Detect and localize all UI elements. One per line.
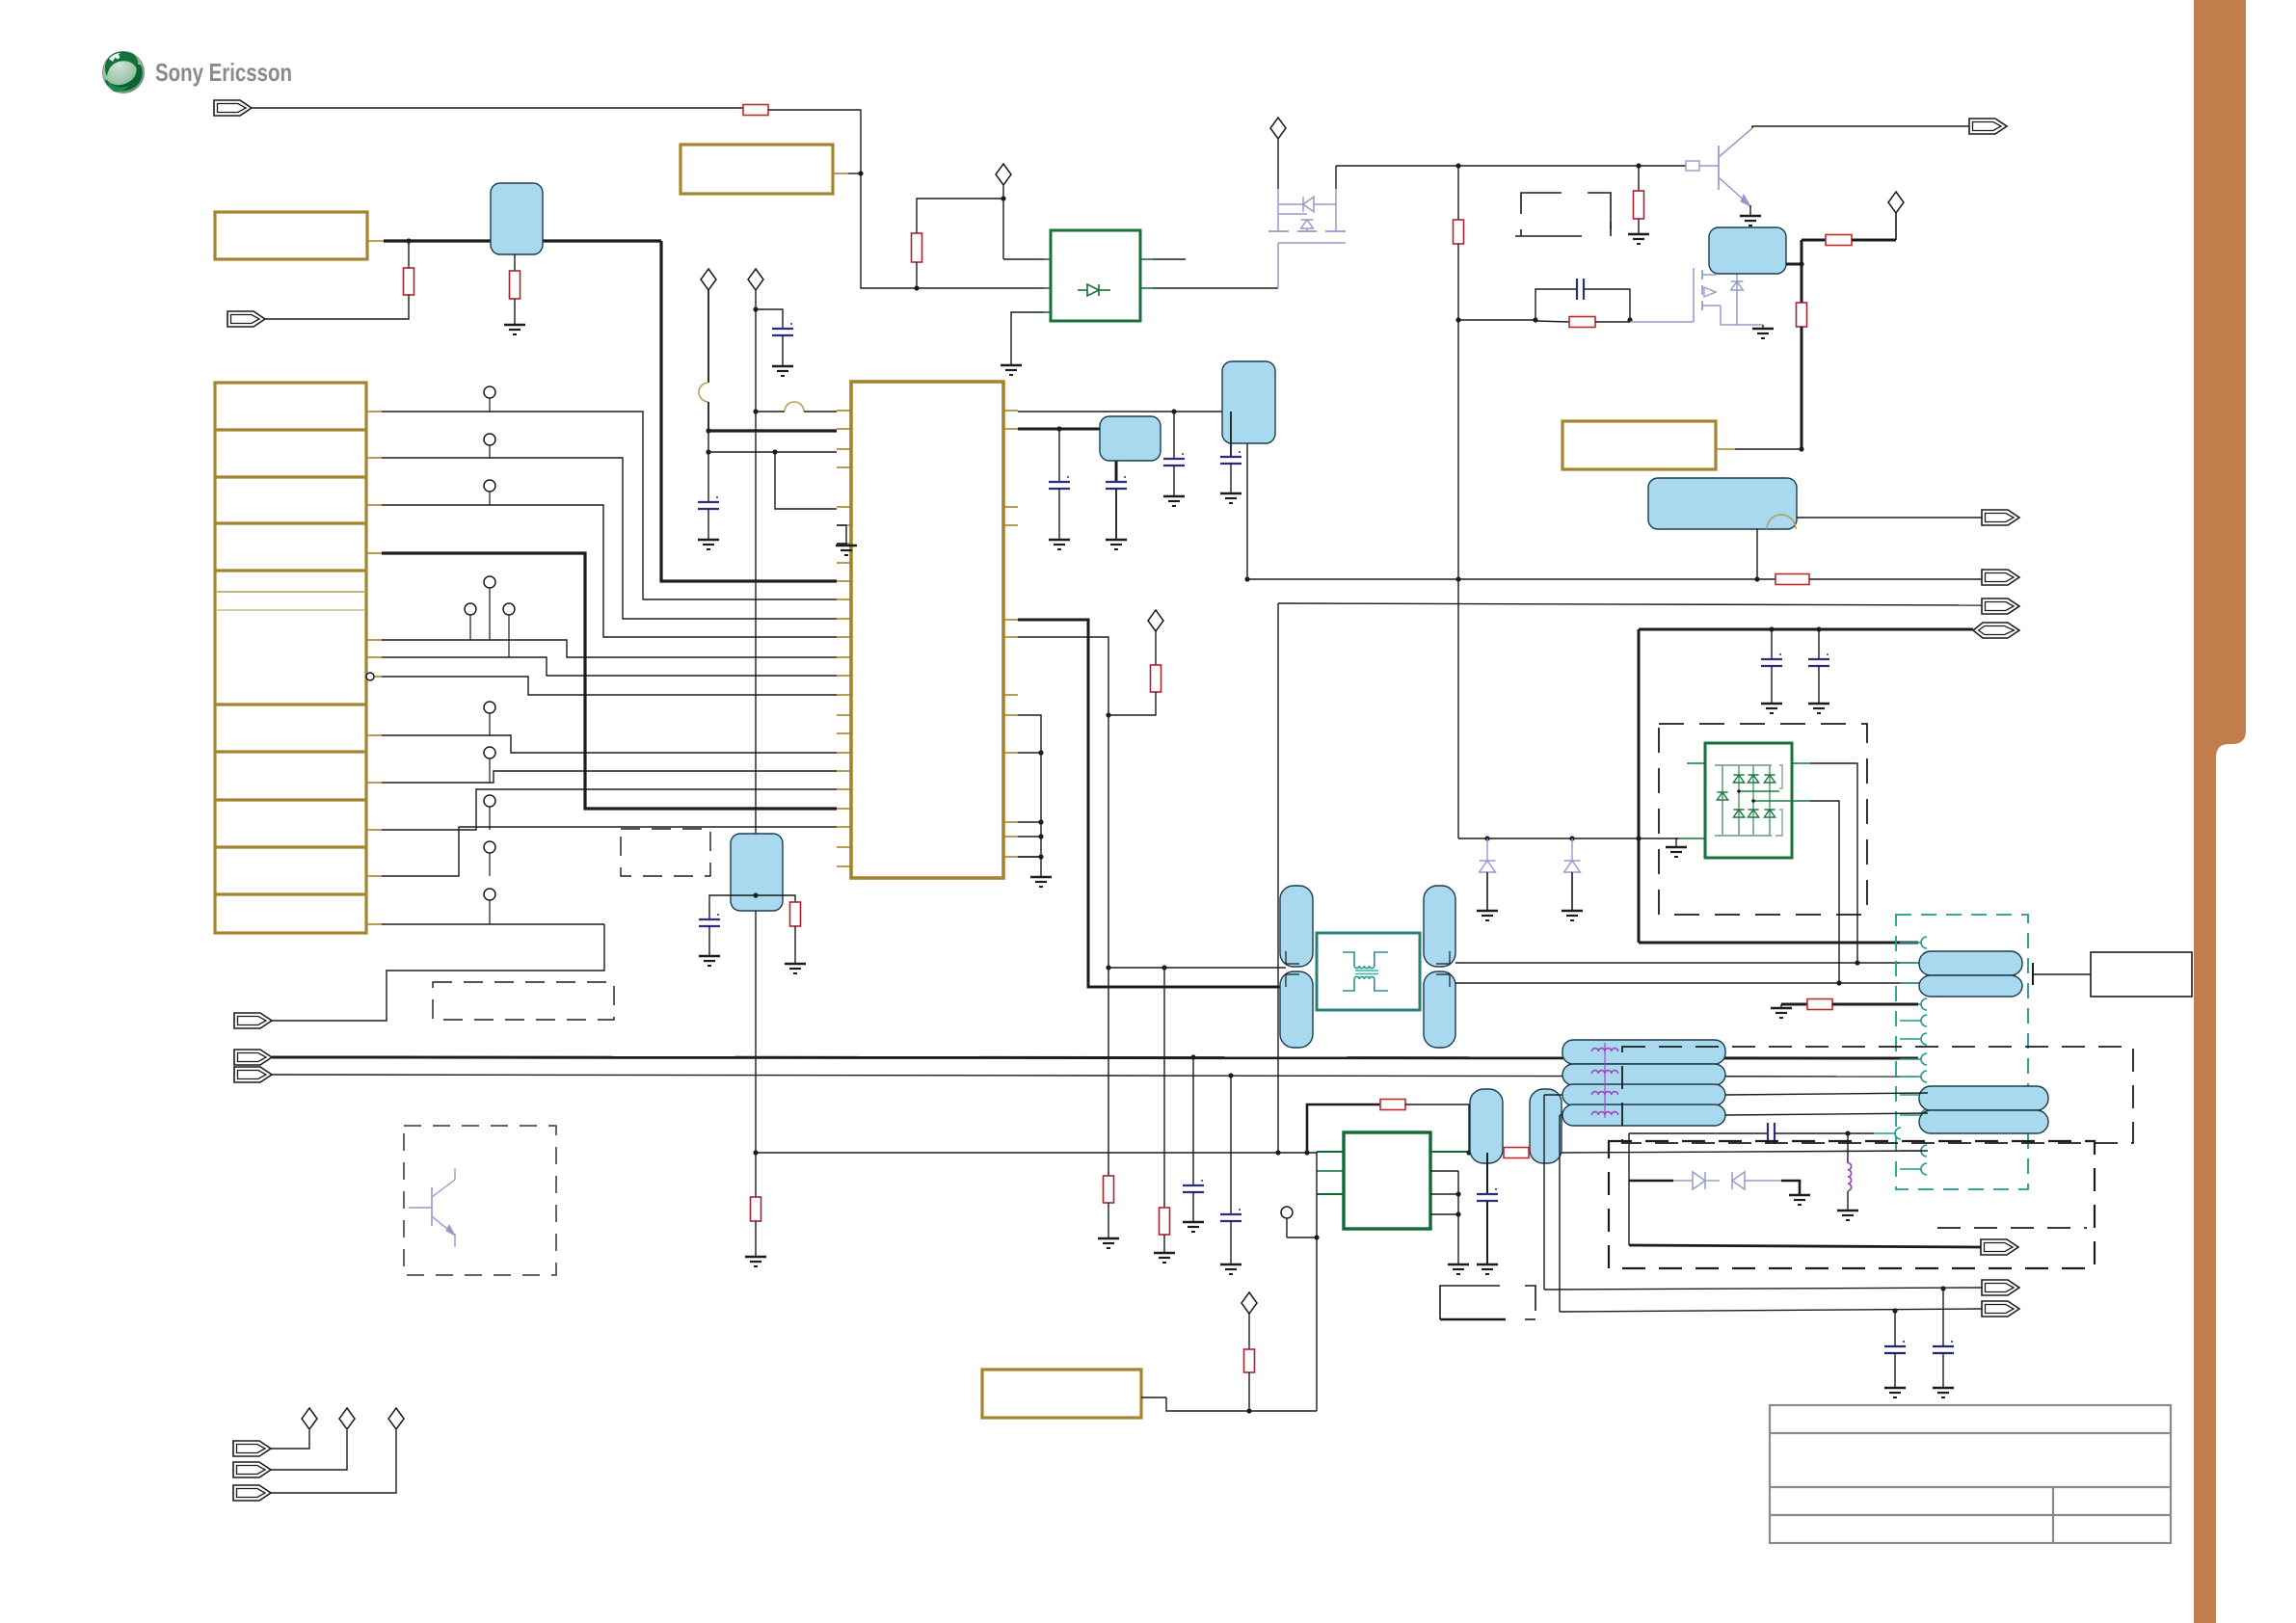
capacitor C14 bbox=[1942, 1289, 1944, 1346]
antenna pin y1020 bbox=[1921, 977, 1927, 989]
wire R3 to node bbox=[768, 110, 861, 173]
U1 left pin y879 bbox=[837, 846, 851, 848]
wire R15 loop back to rail bbox=[1405, 1104, 1469, 1153]
wire U1 pin643 thick to balun bbox=[1018, 620, 1286, 987]
junction bbox=[1855, 960, 1859, 965]
title block table bbox=[1770, 1405, 2171, 1543]
diode limiter branch bbox=[1629, 1180, 1673, 1183]
connector J1 thin divider bbox=[217, 609, 364, 611]
resistor R8 bbox=[1826, 235, 1852, 246]
power diamond VD8 bbox=[302, 1408, 317, 1429]
J1 pin y664 bbox=[366, 639, 382, 641]
U1 right pin y721 bbox=[1003, 694, 1018, 696]
wire y626 to A12 bbox=[1278, 603, 1982, 605]
connector J1 row divider bbox=[215, 703, 366, 705]
svg-text:Sony Ericsson: Sony Ericsson bbox=[155, 58, 292, 87]
orange sidebar bbox=[2194, 0, 2246, 1623]
ground bbox=[1220, 492, 1241, 494]
wire to U2 left pin bbox=[917, 287, 1044, 289]
wire U4 right pins to gnd bbox=[1457, 1171, 1459, 1264]
port arrow A10 bbox=[1982, 510, 2019, 525]
dashed box DB4 bbox=[621, 829, 710, 876]
transformer T1 teal box bbox=[1317, 933, 1420, 1010]
wire rail to base resistor bbox=[1639, 165, 1686, 167]
junction bbox=[753, 1150, 758, 1155]
capacitor C11 bbox=[1228, 1073, 1233, 1078]
junction bbox=[858, 171, 863, 175]
transistor Q4 npn bbox=[431, 1187, 433, 1226]
Q3 body diode bbox=[1736, 274, 1738, 325]
junction bbox=[1038, 819, 1043, 824]
U1 right pin y853 bbox=[1003, 821, 1018, 823]
wire J1 y524 to U1 y661 bbox=[382, 505, 837, 637]
thick feed x1356 bbox=[1307, 1104, 1380, 1153]
junction bbox=[1569, 836, 1574, 840]
U3 inner bus bbox=[1739, 790, 1779, 792]
inductor pills link bbox=[1604, 1043, 1606, 1118]
resistor R11v bbox=[1155, 631, 1157, 665]
U1 left pin y466 bbox=[837, 448, 851, 450]
junction bbox=[1799, 446, 1803, 451]
balun pill B7 bbox=[1280, 886, 1313, 967]
resistor R13 bbox=[1108, 968, 1109, 1176]
wire J1 y812 to U1 y800 bbox=[382, 771, 837, 783]
port arrow A13 double bbox=[1973, 623, 2019, 638]
junction bbox=[1799, 261, 1803, 266]
antenna pill B18 bbox=[1919, 975, 2022, 997]
test point bbox=[489, 398, 491, 412]
wire U1 pin426R bbox=[1018, 411, 1231, 412]
wire pins545-564 to ground bbox=[837, 525, 846, 544]
wire VD2 stem with hop bbox=[707, 290, 709, 383]
wire to U1 pin445 thick bbox=[708, 429, 837, 432]
port arrow A8 bbox=[233, 1485, 271, 1501]
port arrow A7 bbox=[233, 1462, 271, 1477]
J1 pin y682 bbox=[366, 656, 382, 658]
thick antenna wire y1097 bbox=[272, 1057, 1918, 1058]
J1 pin y524 bbox=[366, 504, 382, 506]
antenna pin y1099 bbox=[1921, 1053, 1927, 1065]
wire J1 y909 to U1 y858 bbox=[382, 827, 837, 876]
wire A7 to VD9 bbox=[271, 1430, 347, 1470]
wire VD1 to U2 top pin bbox=[1003, 258, 1044, 260]
junction bbox=[1038, 750, 1043, 755]
inductor pill L3 bbox=[1562, 1064, 1725, 1085]
ground bbox=[1933, 1387, 1954, 1389]
antenna pin y1213 bbox=[1921, 1163, 1927, 1175]
thick wire to antenna pin y978 bbox=[1639, 942, 1918, 945]
junction bbox=[706, 449, 710, 454]
port arrow A6 bbox=[233, 1441, 271, 1456]
junction bbox=[1816, 626, 1821, 631]
U1 right pin y526 bbox=[1003, 506, 1018, 508]
junction bbox=[1275, 1150, 1280, 1155]
U2 pin stubs bbox=[1044, 258, 1051, 260]
connector J1 row divider bbox=[215, 569, 366, 572]
junction bbox=[753, 306, 758, 311]
capacitor C12 bbox=[1486, 1153, 1488, 1194]
power diamond VD7 bbox=[1241, 1292, 1257, 1314]
antenna pin y978 bbox=[1921, 937, 1927, 948]
U1 left pin y622 bbox=[837, 599, 851, 600]
balun pill B8 bbox=[1280, 971, 1313, 1048]
ground bbox=[1762, 325, 1764, 329]
U1 left pin y781 bbox=[837, 752, 851, 754]
wire main rail y172 bbox=[1336, 165, 1639, 167]
U1 left pin y545 bbox=[837, 524, 851, 526]
port arrow A16 bbox=[1982, 1301, 2019, 1317]
component Z1 blue bbox=[491, 183, 543, 254]
junction bbox=[1636, 836, 1641, 840]
junction bbox=[1845, 1131, 1850, 1135]
junction bbox=[1455, 163, 1460, 168]
resistor R6 bbox=[1454, 220, 1464, 244]
J1 pin y702 bbox=[366, 676, 382, 678]
ground bbox=[772, 365, 793, 367]
port arrow A9 bbox=[1969, 119, 2007, 134]
junction bbox=[1754, 576, 1759, 581]
ground bbox=[836, 545, 857, 546]
thick vertical x1700 bbox=[1638, 629, 1641, 943]
ground bbox=[1001, 364, 1022, 366]
junction bbox=[1892, 1308, 1897, 1313]
power diamond VD10 bbox=[388, 1408, 404, 1429]
U1 left pin y721 bbox=[837, 694, 851, 696]
junction bbox=[1455, 1211, 1460, 1216]
port arrow A2 bbox=[227, 311, 265, 327]
bracket shield BT1 bbox=[1521, 193, 1562, 214]
wire y601 bus bbox=[1247, 578, 1775, 580]
junction bbox=[1038, 834, 1043, 838]
ground bbox=[1154, 1252, 1175, 1254]
wire VBATT vertical to U1 pin603 bbox=[661, 241, 837, 581]
wire pill row3 right bbox=[1725, 1093, 1928, 1095]
power diamond VD5 bbox=[1895, 212, 1897, 240]
component Z6 blue bbox=[731, 834, 783, 911]
antenna box W1 bbox=[2091, 952, 2192, 997]
U1 left pin y701 bbox=[837, 675, 851, 677]
J1 pin y574 bbox=[366, 552, 382, 554]
wire A8 to VD10 bbox=[271, 1430, 396, 1493]
wire Z3 right to A10 bbox=[1797, 517, 1982, 519]
junction bbox=[1627, 317, 1632, 322]
antenna pin y1194 bbox=[1921, 1145, 1927, 1157]
test point bbox=[489, 807, 491, 830]
wire U3 right pin831 drop bbox=[1810, 801, 1839, 983]
dashed box DB3 bbox=[433, 982, 614, 1020]
resistor Rb light bbox=[1686, 161, 1699, 171]
wire pill row4 right bbox=[1725, 1113, 1928, 1115]
wire J1 y861 to U1 y819 bbox=[382, 789, 837, 830]
junction bbox=[1455, 1191, 1460, 1196]
wire to C2 bbox=[756, 309, 783, 329]
ground bbox=[1837, 1210, 1858, 1211]
component Z3 blue with notch bbox=[1648, 478, 1797, 529]
junction bbox=[1466, 1150, 1471, 1155]
ground bbox=[1098, 1237, 1119, 1239]
vertical x1208 bbox=[1163, 968, 1165, 1208]
resistor R16 bbox=[1504, 1148, 1529, 1158]
ground bbox=[1049, 539, 1070, 541]
wire Q2 collector bbox=[1752, 126, 1969, 128]
junction bbox=[1769, 626, 1774, 631]
block P1 top-left bbox=[215, 212, 367, 259]
J1 pin y763 bbox=[366, 734, 382, 736]
U1 left pin y642 bbox=[837, 618, 851, 620]
wire R5h to Q3 gate bbox=[1595, 321, 1630, 323]
J1 pin y475 bbox=[366, 457, 382, 459]
wire VD3 stem long bbox=[755, 290, 757, 1153]
ground bbox=[698, 539, 719, 541]
junction bbox=[1244, 576, 1249, 581]
wire B9 to antenna pills bbox=[1455, 962, 1928, 964]
wire A6 to VD8 bbox=[271, 1430, 309, 1449]
power diamond VD9 bbox=[339, 1408, 355, 1429]
U3 right brackets bbox=[1779, 765, 1782, 788]
resistor R14 bbox=[1160, 1208, 1170, 1235]
pa rail y1196 bbox=[756, 1152, 1317, 1154]
ground bbox=[1477, 910, 1498, 912]
block P2 top-middle bbox=[681, 145, 833, 194]
ground bbox=[1448, 1264, 1469, 1265]
U1 right pin y661 bbox=[1003, 636, 1018, 638]
bracket shield BT2 bbox=[1440, 1286, 1500, 1319]
U1 left pin y839 bbox=[837, 808, 851, 810]
junction bbox=[1314, 1235, 1319, 1239]
wire Q1 gate down-left bbox=[1277, 243, 1279, 288]
capacitor C13 bbox=[1894, 1311, 1896, 1346]
connector J1 row divider bbox=[215, 892, 366, 895]
power diamond VD2 bbox=[701, 269, 716, 290]
junction bbox=[753, 892, 758, 897]
diode D1 bbox=[1486, 838, 1488, 861]
wire J1 y427 to U1 y622 bbox=[382, 412, 837, 599]
J1 pin y861 bbox=[366, 829, 382, 831]
resistor R7 bbox=[1638, 166, 1640, 191]
U1 right pin y781 bbox=[1003, 752, 1018, 754]
junction bbox=[1455, 576, 1460, 581]
wire U2 out to Q1 gate bbox=[1153, 287, 1278, 289]
U4 pins bbox=[1317, 1151, 1344, 1153]
connector J1 thin divider bbox=[217, 591, 364, 593]
antenna pin y999 bbox=[1921, 957, 1927, 969]
capacitor C9 bbox=[1818, 629, 1820, 659]
U1 right pin y868 bbox=[1003, 836, 1018, 838]
antenna pin y1136 bbox=[1921, 1089, 1927, 1101]
ground bbox=[504, 324, 525, 326]
J1 pin y812 bbox=[366, 782, 382, 784]
resistor R9 bbox=[1797, 303, 1807, 327]
J1 pin circle bbox=[366, 673, 374, 680]
junction bbox=[1161, 965, 1166, 970]
inductor pill L4 bbox=[1562, 1084, 1725, 1105]
U1 left pin y564 bbox=[837, 543, 851, 545]
transistor Q1 p-mosfet bbox=[1277, 189, 1279, 231]
test point bbox=[1281, 1207, 1293, 1218]
junction bbox=[1484, 836, 1489, 840]
wire B10 to antenna pills bbox=[1455, 982, 1928, 984]
connector J1 row divider bbox=[215, 798, 366, 801]
dashed box DB-U bbox=[1622, 1047, 2133, 1143]
port arrow A15 bbox=[1982, 1280, 2019, 1295]
test point bbox=[469, 615, 471, 640]
U1 left pin y819 bbox=[837, 788, 851, 790]
wire drop to pin526 bbox=[775, 452, 837, 509]
junction bbox=[1001, 196, 1005, 200]
wire VD4 stem bbox=[1277, 139, 1279, 189]
U1 left pin y800 bbox=[837, 770, 851, 772]
U1 left pin y761 bbox=[837, 732, 851, 734]
port arrow A11 bbox=[1982, 570, 2019, 585]
U3 pins bbox=[1687, 762, 1705, 764]
ground bbox=[699, 955, 720, 957]
inductor pill L5 bbox=[1562, 1104, 1725, 1126]
wire y1176 with series cap bbox=[1629, 1132, 1768, 1134]
U1 left pin y426 bbox=[837, 410, 851, 412]
wire VD1 stem bbox=[1002, 185, 1004, 259]
junction bbox=[1304, 1150, 1309, 1155]
ground bbox=[1666, 846, 1687, 848]
J1 pin y909 bbox=[366, 875, 382, 877]
T1 pin notches bbox=[1286, 951, 1299, 964]
ground bbox=[1884, 1387, 1906, 1389]
power diamond VD1 bbox=[996, 164, 1011, 185]
resistor R1 bbox=[408, 241, 410, 268]
capacitor C5 bbox=[1173, 412, 1175, 459]
resistor R11b bbox=[756, 895, 795, 902]
ground bbox=[1477, 1264, 1498, 1265]
capacitor C6 bbox=[1230, 412, 1232, 457]
dashed box DB5 bbox=[404, 1126, 556, 1275]
ground bbox=[1761, 703, 1782, 705]
resistor R3 bbox=[743, 105, 768, 116]
antenna pill B17 bbox=[1919, 951, 2022, 975]
U1 left pin y661 bbox=[837, 636, 851, 638]
test point bbox=[489, 900, 491, 924]
antenna feed bar bbox=[2032, 963, 2034, 985]
junction bbox=[1056, 426, 1061, 431]
antenna pin y1117 bbox=[1921, 1071, 1927, 1082]
antenna pill B19 bbox=[1919, 1086, 2048, 1110]
antenna pin y1157 bbox=[1921, 1109, 1927, 1121]
U1 left pin y682 bbox=[837, 656, 851, 658]
component Z5 blue bbox=[1100, 416, 1161, 461]
ground bbox=[785, 963, 806, 965]
connector J1 row divider bbox=[215, 750, 366, 753]
connector J1 row divider bbox=[215, 428, 366, 431]
ground bbox=[1163, 495, 1185, 497]
wire A16 net bbox=[1560, 1309, 1982, 1312]
regulator U2 green box bbox=[1051, 230, 1140, 321]
wire U3 right pin792 drop bbox=[1810, 763, 1857, 963]
U1 left pin y445 bbox=[837, 428, 851, 430]
thick wire y1292 to A14 bbox=[1629, 1245, 1981, 1247]
U1 right pin y426 bbox=[1003, 410, 1018, 412]
ground bbox=[1808, 703, 1829, 705]
capacitor C10 bbox=[1192, 1057, 1194, 1185]
wire J1 y959 to header bbox=[382, 923, 604, 925]
wire Q2 emitter to gnd bbox=[1749, 205, 1751, 216]
U1 left pin y584 bbox=[837, 562, 851, 564]
capacitor C16 bbox=[699, 918, 720, 920]
antenna pin y1078 bbox=[1921, 1033, 1927, 1045]
junction bbox=[1455, 317, 1460, 322]
U1 left pin y603 bbox=[837, 580, 851, 582]
wire VD1 to R4 bbox=[917, 199, 1003, 233]
vertical x1326 RF bbox=[1277, 603, 1279, 1153]
dashed segment bbox=[1937, 1227, 2087, 1229]
junction bbox=[706, 428, 710, 433]
transistor Q2 npn bbox=[1718, 146, 1720, 190]
wire U1 pin445R thick bbox=[1018, 429, 1116, 482]
wire y1116 bbox=[272, 1075, 1918, 1077]
connector J1 row divider bbox=[215, 521, 366, 524]
capacitor C4 bbox=[1106, 481, 1127, 483]
wire J1 y763 to U1 y781 bbox=[382, 735, 837, 753]
wire P4 stub bbox=[1141, 1397, 1166, 1398]
U1 left pin y899 bbox=[837, 865, 851, 867]
port arrow A14 bbox=[1981, 1239, 2018, 1255]
junction bbox=[914, 285, 919, 290]
ground bbox=[1740, 215, 1761, 217]
RC snubber cap C7 bbox=[1535, 289, 1577, 320]
power diamond VD3 bbox=[748, 269, 763, 290]
junction bbox=[406, 238, 411, 243]
wire J1 y664 to U1 y682 bbox=[382, 640, 837, 657]
U1 left pin y858 bbox=[837, 826, 851, 828]
junction bbox=[1106, 712, 1110, 717]
dashed box DB-G around U3 bbox=[1659, 724, 1867, 915]
test point bbox=[489, 713, 491, 735]
pa pill B12 bbox=[1530, 1089, 1562, 1163]
component Z2 blue bbox=[1709, 227, 1786, 274]
U1 right pin y889 bbox=[1003, 856, 1018, 858]
wire A3 route bbox=[272, 924, 604, 1021]
vertical x1690 bbox=[1628, 1133, 1630, 1245]
wire pill row3 left drop bbox=[1543, 1095, 1545, 1290]
connector J1 row divider bbox=[215, 475, 366, 478]
resistor R17 with ground bbox=[1781, 1003, 1807, 1006]
junction bbox=[1190, 1054, 1195, 1059]
T1 secondary winding bbox=[1343, 976, 1388, 991]
wire J1 y574 to U1 y839 bbox=[382, 553, 837, 809]
vertical rail x1513 bbox=[1457, 166, 1459, 220]
U1 right pin y643 bbox=[1003, 619, 1018, 621]
inductor pill L2 bbox=[1562, 1040, 1725, 1064]
wire pa out bbox=[1562, 1151, 1928, 1153]
junction bbox=[1106, 965, 1110, 970]
pa pill B11 bbox=[1470, 1089, 1503, 1163]
wire Z2 right thick bbox=[1786, 263, 1802, 266]
J1 pin y959 bbox=[366, 923, 382, 925]
wire pill row4 left drop bbox=[1559, 1115, 1561, 1312]
J1 pin y427 bbox=[366, 411, 382, 412]
resistor R12 bbox=[755, 1153, 757, 1197]
balun pill B9 bbox=[1424, 886, 1455, 967]
antenna pin y1042 bbox=[1921, 998, 1927, 1010]
dashed box DB-L bbox=[1609, 1141, 2095, 1268]
junction bbox=[1038, 854, 1043, 859]
antenna pin y1176 bbox=[1895, 1128, 1901, 1139]
capacitor C1 bbox=[707, 452, 709, 502]
wire P2 output bbox=[833, 173, 848, 174]
resistor R15 bbox=[1380, 1100, 1405, 1110]
wire net VBATT from P1 bbox=[367, 240, 384, 242]
wire y332 bbox=[1458, 319, 1535, 321]
wire J1 y702 to U1 y721 bbox=[382, 677, 837, 695]
ground bbox=[1789, 1194, 1810, 1196]
wire J1 y475 to U1 y642 bbox=[382, 458, 837, 619]
